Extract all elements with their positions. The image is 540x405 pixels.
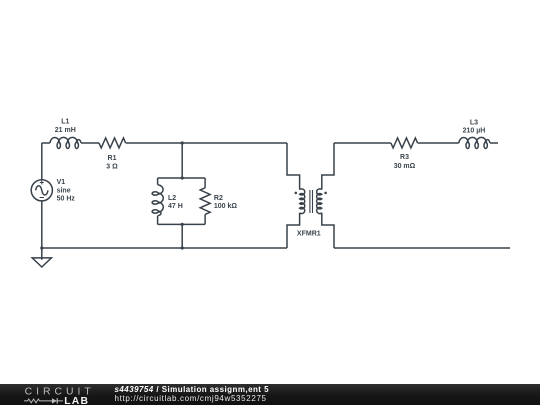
svg-text:R1: R1 <box>108 155 117 162</box>
resistor R2 <box>200 188 210 215</box>
svg-text:3 Ω: 3 Ω <box>106 163 118 170</box>
label L2 <box>168 195 183 210</box>
resistor R3 <box>391 138 418 148</box>
label R2 <box>214 195 238 210</box>
svg-text:R3: R3 <box>400 154 409 161</box>
wire R2 bottom lead <box>204 214 206 224</box>
wire bottom rail left <box>42 247 287 249</box>
wire top rail segment C <box>126 142 287 144</box>
ground <box>32 248 51 267</box>
svg-text:R2: R2 <box>214 195 223 202</box>
label R3 <box>394 154 416 170</box>
svg-text:50 Hz: 50 Hz <box>57 196 76 203</box>
wire primary top lead <box>287 143 300 190</box>
label V1 value <box>57 179 76 203</box>
label XFMR1 <box>297 230 321 237</box>
footer bar <box>0 384 540 405</box>
wire L2 top lead <box>157 178 159 185</box>
wire block bottom <box>158 223 206 225</box>
wire R2 top lead <box>204 178 206 188</box>
label R1 <box>106 155 118 170</box>
wire top rail segment B <box>81 142 99 144</box>
label L1 <box>55 119 76 134</box>
wire secondary bottom rail <box>334 247 510 249</box>
wire left vertical top (V1 to top rail) <box>41 143 43 180</box>
core lines <box>310 190 313 213</box>
CircuitLab logo <box>22 384 102 405</box>
node junction block bottom <box>181 223 184 226</box>
label L3 <box>463 120 486 135</box>
node junction block top <box>181 176 184 179</box>
svg-text:30 mΩ: 30 mΩ <box>394 163 416 170</box>
inductor L1 <box>50 137 81 148</box>
wire secondary top lead <box>322 143 334 190</box>
node junction ground <box>40 246 43 249</box>
wire left vertical bottom (V1 to bottom rail) <box>41 201 43 248</box>
wire primary bottom lead <box>287 213 300 248</box>
resistor R1 <box>99 138 126 148</box>
voltage source V1 <box>31 180 52 201</box>
svg-text:L2: L2 <box>168 195 176 202</box>
secondary winding <box>317 189 322 214</box>
inductor L3 <box>459 137 490 148</box>
wire top rail segment A <box>42 142 50 144</box>
wire L2 bottom lead <box>157 216 159 225</box>
wire block top <box>158 177 206 179</box>
svg-text:100 kΩ: 100 kΩ <box>214 203 238 210</box>
node junction top rail <box>181 141 184 144</box>
wire secondary top rail A <box>334 142 391 144</box>
node junction bottom rail <box>181 246 184 249</box>
svg-text:XFMR1: XFMR1 <box>297 230 321 237</box>
wire secondary bottom lead <box>322 213 334 248</box>
inductor L2 <box>152 185 163 216</box>
wire secondary top rail B <box>418 142 459 144</box>
svg-text:V1: V1 <box>57 179 66 186</box>
wire secondary top rail C <box>490 142 498 144</box>
primary winding <box>300 189 305 214</box>
phase dot primary <box>295 192 298 195</box>
svg-text:sine: sine <box>57 187 71 194</box>
svg-text:47 H: 47 H <box>168 203 183 210</box>
wire branch vertical upper <box>181 143 183 178</box>
svg-text:LAB: LAB <box>64 396 89 405</box>
svg-text:210 µH: 210 µH <box>463 128 486 135</box>
wire branch vertical lower <box>181 224 183 248</box>
svg-text:L3: L3 <box>470 120 478 127</box>
svg-text:L1: L1 <box>61 119 69 126</box>
phase dot secondary <box>324 192 327 195</box>
footer credits <box>115 385 270 403</box>
svg-text:21 mH: 21 mH <box>55 127 76 134</box>
transformer U1 XFMR1 <box>287 143 334 248</box>
